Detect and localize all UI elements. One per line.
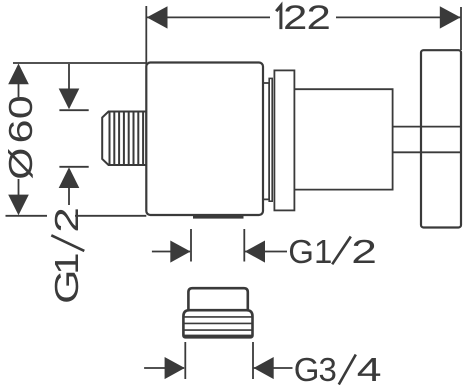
svg-text:G3: G3 [294,351,336,388]
svg-text:2: 2 [351,234,377,271]
dimension G1/2 bottom: left leader line [152,251,190,253]
dimension G1/2 bottom: right leader line [245,251,287,253]
dimension D60: dimension line upper segment [18,82,20,97]
dimension G1/2 nipple: dimension line lower segment [68,187,70,205]
main valve body [146,63,263,216]
dimension G1/2 nipple: down arrowhead [59,89,80,110]
dimension G3/4: left-pointing arrowhead [254,357,274,379]
sleeve cylinder [294,89,392,189]
svg-text:2: 2 [48,207,85,233]
dimension 122: right extension line [460,7,462,50]
adapter G3/4: lower threaded section [183,310,252,337]
dimension D60: bottom tick right segment [75,215,146,217]
svg-text:1: 1 [48,253,85,275]
dimension G1/2 nipple: bottom tick [59,166,88,168]
svg-text:0: 0 [3,95,40,119]
svg-text:Ø: Ø [2,148,39,180]
svg-text:4: 4 [357,352,382,388]
dimension 122: value label [276,0,331,37]
dimension D60: down arrowhead [8,195,29,216]
threaded nipple G1/2 body [102,112,146,166]
dimension D60: value label (rotated) [2,95,40,179]
bottom outlet foot [193,214,244,218]
dimension G1/2 bottom: right extension tick [243,229,245,262]
adapter G3/4: thread line 2 [183,322,252,324]
disc B (second step) [269,78,272,201]
dimension D60: bottom tick left segment [6,215,48,217]
disc A (first step) [263,83,269,199]
dimension D60: top tick (body top edge extended) [13,62,146,64]
dimension D60: up arrowhead [8,64,29,85]
dimension G1/2 bottom: label [288,233,377,270]
dimension G1/2 bottom: left-pointing arrowhead [245,241,265,263]
dimension G1/2 nipple: up arrowhead [59,167,80,188]
dimension G3/4: left extension line [184,342,186,379]
adapter G3/4: thread line 3 [183,329,252,331]
dimension D60: dimension line lower segment [18,179,20,196]
dimension G3/4: right extension line [252,342,254,379]
dimension G1/2 nipple: label (rotated) [48,207,85,304]
nipple thread hatch lines [109,112,111,166]
adapter G3/4: thread line 1 [183,316,252,318]
dimension G1/2 bottom: left extension tick [190,229,192,262]
dimension 122: dimension line right segment [336,16,461,18]
dimension 122: left extension line [145,6,147,66]
dimension G3/4: right-pointing arrowhead [165,357,185,379]
dimension G3/4: label [294,351,382,389]
svg-text:2: 2 [283,0,307,37]
hole line bottom across plate [421,151,461,153]
dimension G1/2 nipple: dimension line upper segment [68,64,70,89]
hole line top across plate [421,126,461,128]
adapter G3/4: thick bottom edge [184,335,252,338]
dimension G3/4: left leader line [144,367,184,369]
svg-text:2: 2 [307,0,331,37]
svg-text:G1: G1 [288,233,332,270]
wall plate [421,50,461,227]
ring (large collar) [274,70,294,210]
svg-text:6: 6 [3,120,40,144]
dimension G3/4: right leader line [254,367,293,369]
dimension 122: left arrowhead [147,6,168,28]
dimension G1/2 bottom: right-pointing arrowhead [170,241,190,263]
dimension G1/2 nipple: top tick [59,109,88,111]
dimension 122: right arrowhead [440,6,461,28]
dimension 122: dimension line left segment [146,16,270,18]
stem top line [393,126,421,128]
adapter G3/4: upper hub [188,288,247,310]
stem bottom line [393,151,421,153]
